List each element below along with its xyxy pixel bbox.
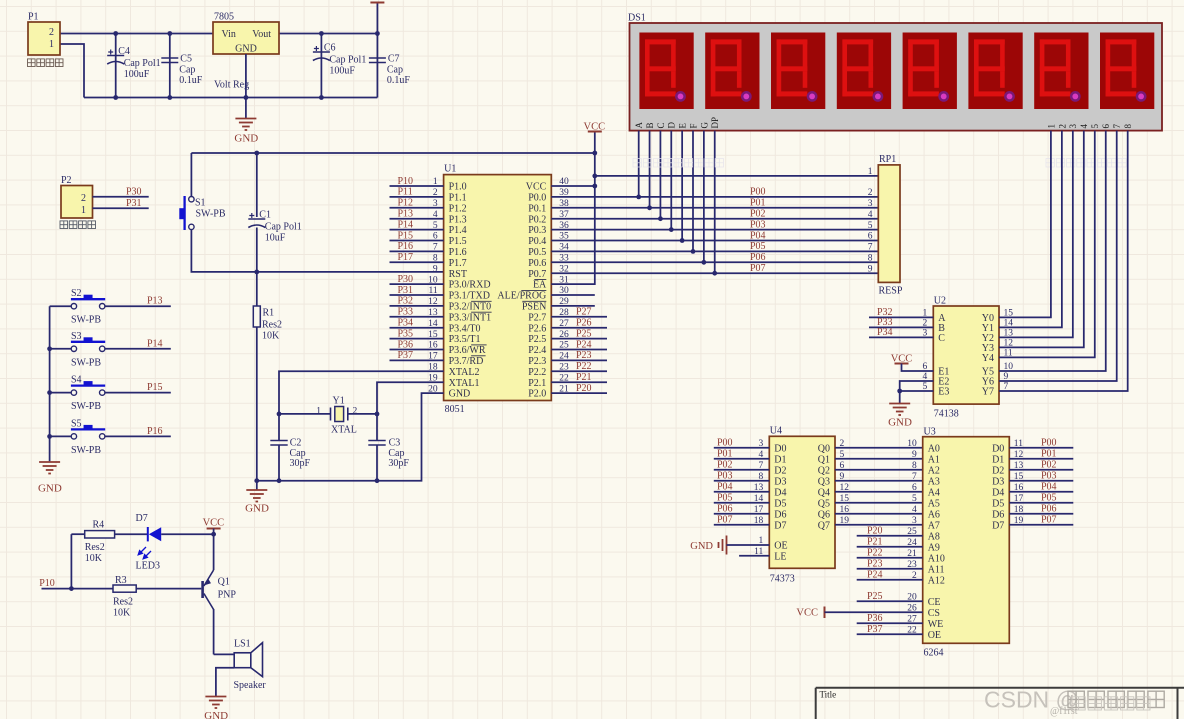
- svg-text:A1: A1: [928, 454, 940, 465]
- svg-text:D6: D6: [992, 509, 1004, 520]
- svg-text:6: 6: [840, 461, 845, 471]
- svg-text:P33: P33: [398, 307, 414, 318]
- svg-text:10uF: 10uF: [265, 233, 286, 244]
- wire key S2 output: [105, 305, 171, 307]
- svg-text:9: 9: [1004, 372, 1009, 382]
- wire key common column: [49, 306, 51, 461]
- svg-text:7: 7: [868, 243, 873, 253]
- capacitor C3 Cap 30pF: [376, 414, 378, 440]
- svg-text:7805: 7805: [214, 12, 234, 23]
- svg-text:P1.5: P1.5: [449, 236, 467, 247]
- svg-text:C2: C2: [290, 437, 302, 448]
- svg-text:U1: U1: [444, 164, 456, 175]
- svg-text:C6: C6: [324, 43, 336, 54]
- decoder U2 74138 body: [933, 306, 999, 404]
- wire VCC top branch / C7 branch: [376, 3, 378, 98]
- svg-text:P0.6: P0.6: [528, 258, 546, 269]
- svg-text:GND: GND: [888, 417, 912, 429]
- svg-text:12: 12: [840, 483, 850, 493]
- junction dots RST node: [254, 151, 259, 156]
- svg-text:P04: P04: [717, 482, 733, 493]
- junction dot E2/E3 gnd: [897, 389, 902, 394]
- diode D7 LED3: [147, 527, 149, 541]
- svg-text:1: 1: [81, 205, 86, 216]
- svg-text:RP1: RP1: [879, 154, 896, 165]
- wire U4 LE: [739, 555, 769, 557]
- wire U3 CS to VCC: [825, 611, 923, 613]
- svg-text:P0.7: P0.7: [528, 269, 546, 280]
- svg-text:P2.5: P2.5: [528, 334, 546, 345]
- crystal Y1 XTAL: [279, 413, 331, 415]
- svg-text:P25: P25: [867, 591, 883, 602]
- svg-text:20: 20: [907, 593, 917, 603]
- svg-text:P14: P14: [398, 219, 414, 230]
- svg-text:P3.1/TXD: P3.1/TXD: [449, 291, 490, 302]
- svg-text:P22: P22: [867, 548, 883, 559]
- svg-text:P12: P12: [398, 198, 414, 209]
- svg-text:10K: 10K: [113, 607, 131, 618]
- svg-text:7: 7: [759, 461, 764, 471]
- svg-text:1: 1: [316, 406, 321, 416]
- memory U3 6264 body: [923, 437, 1010, 644]
- svg-text:21: 21: [907, 549, 917, 559]
- svg-text:E3: E3: [938, 387, 949, 398]
- svg-text:ALE/PROG: ALE/PROG: [497, 291, 546, 302]
- svg-text:U4: U4: [770, 426, 782, 437]
- svg-text:P01: P01: [1041, 449, 1057, 460]
- wire P2 pin1: [93, 207, 149, 209]
- svg-text:P22: P22: [576, 361, 592, 372]
- wire 7805 Vout to VCC node: [279, 33, 377, 35]
- svg-text:C: C: [938, 333, 945, 344]
- svg-text:C5: C5: [180, 54, 192, 65]
- svg-text:Q5: Q5: [818, 498, 830, 509]
- svg-text:12: 12: [1004, 339, 1014, 349]
- svg-text:8051: 8051: [445, 404, 465, 415]
- latch U4 74373 body: [769, 436, 835, 568]
- svg-text:P23: P23: [576, 350, 592, 361]
- svg-text:A7: A7: [928, 520, 940, 531]
- wire E1 enable: [902, 364, 934, 372]
- svg-text:P02: P02: [717, 460, 733, 471]
- svg-text:2: 2: [1057, 124, 1067, 129]
- U2 input wires A B C: [869, 316, 933, 318]
- svg-text:12: 12: [1014, 450, 1024, 460]
- display DS1 8-digit 7-segment: [630, 23, 1163, 131]
- svg-text:P36: P36: [398, 339, 414, 350]
- svg-text:Y7: Y7: [982, 387, 994, 398]
- svg-text:P32: P32: [398, 296, 414, 307]
- DS1 segment pins down: [638, 131, 640, 197]
- wire XTAL1 pin19: [377, 382, 444, 414]
- svg-text:1: 1: [923, 309, 928, 319]
- svg-text:P01: P01: [717, 449, 733, 460]
- wire GND pin20: [257, 393, 444, 481]
- svg-text:P00: P00: [1041, 438, 1057, 449]
- wire VCC pin40: [551, 185, 595, 187]
- svg-text:Y4: Y4: [982, 353, 994, 364]
- svg-text:P06: P06: [750, 252, 766, 263]
- svg-text:1: 1: [868, 167, 873, 177]
- svg-text:DS1: DS1: [628, 13, 646, 24]
- svg-text:P2.4: P2.4: [528, 345, 546, 356]
- svg-text:P0.3: P0.3: [528, 225, 546, 236]
- svg-text:P27: P27: [576, 307, 592, 318]
- svg-text:P13: P13: [398, 209, 414, 220]
- resistor R1 Res2 10K: [256, 272, 258, 306]
- wire C6 branch: [320, 34, 322, 98]
- switch S2 SW-PB: [50, 305, 72, 307]
- svg-text:P1.0: P1.0: [449, 182, 467, 193]
- wire S1 top: [190, 153, 192, 197]
- switch S4 SW-PB: [50, 392, 72, 394]
- svg-text:23: 23: [907, 560, 917, 570]
- svg-text:XTAL2: XTAL2: [449, 367, 480, 378]
- transistor Q1 PNP: [201, 581, 204, 598]
- svg-text:P26: P26: [576, 318, 592, 329]
- junction dot P10 node: [69, 586, 74, 591]
- svg-text:6: 6: [1101, 124, 1111, 129]
- junction dots power rails: [113, 31, 118, 36]
- svg-text:Cap Pol1: Cap Pol1: [265, 222, 302, 233]
- svg-text:P0.2: P0.2: [528, 214, 546, 225]
- svg-text:9: 9: [433, 264, 438, 274]
- svg-text:A6: A6: [928, 509, 940, 520]
- svg-text:11: 11: [754, 547, 763, 557]
- svg-text:XTAL1: XTAL1: [449, 378, 480, 389]
- svg-text:10K: 10K: [262, 331, 280, 342]
- svg-text:P20: P20: [576, 383, 592, 394]
- switch S1 SW-PB vertical: [183, 196, 185, 230]
- wire P1 pin1 down to ground rail: [60, 44, 84, 98]
- svg-text:P00: P00: [717, 438, 733, 449]
- wire E2 enable: [900, 381, 934, 403]
- svg-text:A2: A2: [928, 465, 940, 476]
- U3 control wires CE CS WE OE: [857, 600, 923, 602]
- svg-text:SW-PB: SW-PB: [71, 401, 101, 412]
- wire VCC row to S1/C1: [191, 152, 594, 154]
- ground symbol below U2: [889, 404, 910, 416]
- svg-text:A0: A0: [928, 443, 940, 454]
- svg-text:P2.1: P2.1: [528, 378, 546, 389]
- svg-text:13: 13: [1004, 329, 1014, 339]
- svg-text:LS1: LS1: [234, 639, 251, 650]
- capacitor C2 Cap 30pF: [278, 414, 280, 440]
- svg-text:P13: P13: [147, 296, 163, 307]
- svg-text:D: D: [667, 122, 677, 129]
- svg-text:D3: D3: [774, 476, 786, 487]
- svg-text:D7: D7: [774, 520, 786, 531]
- svg-text:15: 15: [840, 494, 850, 504]
- faint watermark under DS1 left pins: [633, 159, 724, 167]
- svg-text:P15: P15: [147, 382, 163, 393]
- svg-text:P1.2: P1.2: [449, 203, 467, 214]
- svg-text:100uF: 100uF: [124, 69, 150, 80]
- svg-text:S1: S1: [195, 198, 206, 209]
- wire C5 branch: [169, 34, 171, 98]
- resistor R4 Res2 10K: [71, 533, 84, 535]
- svg-text:PSEN: PSEN: [522, 302, 546, 313]
- svg-text:Vout: Vout: [252, 29, 271, 40]
- svg-text:5: 5: [868, 221, 873, 231]
- svg-text:Q1: Q1: [218, 576, 230, 587]
- svg-text:P14: P14: [147, 338, 163, 349]
- svg-text:Q6: Q6: [818, 509, 830, 520]
- svg-text:4: 4: [912, 505, 917, 515]
- svg-text:Res2: Res2: [113, 596, 133, 607]
- svg-text:Cap: Cap: [179, 65, 195, 76]
- svg-text:P3.3/INT1: P3.3/INT1: [449, 312, 492, 323]
- svg-text:SW-PB: SW-PB: [71, 357, 101, 368]
- svg-text:EA: EA: [533, 280, 547, 291]
- svg-text:30pF: 30pF: [388, 458, 409, 469]
- switch S3 SW-PB: [50, 348, 72, 350]
- svg-text:GND: GND: [690, 541, 713, 552]
- svg-text:P37: P37: [398, 350, 414, 361]
- svg-text:Q0: Q0: [818, 443, 830, 454]
- svg-text:OE: OE: [928, 630, 941, 641]
- svg-text:9: 9: [868, 264, 873, 274]
- svg-text:U2: U2: [934, 296, 946, 307]
- svg-text:Q2: Q2: [818, 465, 830, 476]
- svg-text:2: 2: [353, 406, 358, 416]
- svg-text:7: 7: [1004, 382, 1009, 392]
- svg-text:P24: P24: [867, 570, 883, 581]
- svg-text:Res2: Res2: [85, 542, 105, 553]
- svg-text:9: 9: [840, 472, 845, 482]
- svg-text:VCC: VCC: [203, 517, 225, 528]
- svg-text:P21: P21: [867, 537, 883, 548]
- svg-text:C4: C4: [118, 46, 130, 57]
- svg-text:P35: P35: [398, 328, 414, 339]
- wire P2 pin2: [93, 196, 149, 198]
- wire VCC to LED/collector node: [213, 529, 215, 571]
- svg-text:GND: GND: [449, 389, 471, 400]
- svg-text:P11: P11: [398, 187, 413, 198]
- svg-text:10: 10: [907, 439, 917, 449]
- svg-text:P34: P34: [398, 318, 414, 329]
- svg-text:Q7: Q7: [818, 520, 830, 531]
- svg-text:P16: P16: [398, 241, 414, 252]
- svg-text:P10: P10: [39, 578, 55, 589]
- resistor R3 Res2 10K: [113, 585, 136, 592]
- svg-text:GND: GND: [234, 133, 258, 145]
- svg-text:RESP: RESP: [879, 286, 903, 297]
- svg-text:DP: DP: [710, 117, 720, 129]
- svg-text:16: 16: [840, 505, 850, 515]
- svg-text:P0.4: P0.4: [528, 236, 546, 247]
- wire XTAL2 pin18: [279, 371, 444, 414]
- svg-text:11: 11: [1004, 349, 1013, 359]
- svg-text:P07: P07: [717, 515, 733, 526]
- svg-text:XTAL: XTAL: [331, 424, 357, 435]
- svg-text:P21: P21: [576, 372, 592, 383]
- svg-text:S4: S4: [71, 375, 82, 386]
- svg-text:A12: A12: [928, 575, 945, 586]
- svg-text:Volt Reg: Volt Reg: [214, 80, 249, 91]
- svg-text:GND: GND: [38, 483, 62, 495]
- svg-text:P06: P06: [1041, 504, 1057, 515]
- svg-text:D7: D7: [136, 513, 148, 524]
- wire C4 branch: [115, 34, 117, 98]
- svg-text:S5: S5: [71, 418, 82, 429]
- svg-text:VCC: VCC: [526, 182, 547, 193]
- svg-text:13: 13: [754, 483, 764, 493]
- svg-text:P16: P16: [147, 426, 163, 437]
- svg-text:P2.0: P2.0: [528, 389, 546, 400]
- svg-text:S2: S2: [71, 288, 82, 299]
- svg-text:P36: P36: [867, 613, 883, 624]
- svg-text:15: 15: [1014, 472, 1024, 482]
- svg-text:8: 8: [912, 461, 917, 471]
- svg-text:P03: P03: [1041, 471, 1057, 482]
- svg-text:A8: A8: [928, 531, 940, 542]
- svg-text:P05: P05: [1041, 493, 1057, 504]
- svg-text:8: 8: [868, 254, 873, 264]
- junction dots key column: [47, 346, 52, 351]
- svg-text:4: 4: [923, 372, 928, 382]
- capacitor C7 Cap 0.1uF: [369, 58, 386, 63]
- svg-text:18: 18: [1014, 505, 1024, 515]
- svg-text:3: 3: [912, 516, 917, 526]
- svg-text:10K: 10K: [85, 553, 103, 564]
- svg-text:GND: GND: [245, 503, 269, 515]
- svg-text:2: 2: [840, 439, 845, 449]
- svg-text:D0: D0: [992, 443, 1004, 454]
- svg-text:4: 4: [759, 450, 764, 460]
- svg-text:Y1: Y1: [333, 396, 345, 407]
- svg-text:2: 2: [868, 188, 873, 198]
- op U1 8051 body: [444, 175, 552, 401]
- title block border: [816, 688, 1184, 719]
- svg-text:GND: GND: [235, 44, 257, 55]
- wire S1 bottom to RST: [191, 230, 443, 272]
- svg-text:U3: U3: [924, 427, 936, 438]
- svg-text:A3: A3: [928, 476, 940, 487]
- wire R4 branch down: [70, 534, 72, 588]
- svg-text:6: 6: [912, 483, 917, 493]
- svg-text:5: 5: [1090, 124, 1100, 129]
- svg-text:PNP: PNP: [218, 590, 237, 601]
- svg-text:P05: P05: [717, 493, 733, 504]
- wire ground rail bottom: [84, 97, 377, 99]
- svg-text:D0: D0: [774, 443, 786, 454]
- svg-text:C7: C7: [388, 54, 400, 65]
- svg-text:P0.1: P0.1: [528, 203, 546, 214]
- resistor pack RP1 RESP: [878, 165, 900, 283]
- svg-text:Cap Pol1: Cap Pol1: [124, 58, 161, 69]
- svg-text:11: 11: [1014, 439, 1023, 449]
- U1 left stub wires P10-P17: [390, 185, 444, 187]
- svg-text:P3.5/T1: P3.5/T1: [449, 334, 481, 345]
- svg-text:22: 22: [907, 626, 917, 636]
- svg-text:D7: D7: [992, 520, 1004, 531]
- U3 data wires D0-D7: [1009, 447, 1073, 449]
- svg-text:17: 17: [1014, 494, 1024, 504]
- svg-text:D2: D2: [774, 465, 786, 476]
- DS1 digit segments: [645, 39, 1136, 96]
- svg-text:D4: D4: [992, 487, 1004, 498]
- U1 pin name overlines left: [471, 300, 492, 302]
- svg-text:@f1rst: @f1rst: [1050, 706, 1078, 717]
- svg-text:D5: D5: [992, 498, 1004, 509]
- svg-text:100uF: 100uF: [329, 66, 355, 77]
- svg-text:P07: P07: [750, 263, 766, 274]
- svg-text:P15: P15: [398, 230, 414, 241]
- wire RP1 pin1 feed: [595, 175, 879, 177]
- svg-text:P3.4/T0: P3.4/T0: [449, 323, 481, 334]
- svg-text:Res2: Res2: [262, 320, 282, 331]
- U4 output wires Q0-Q7 to U3: [835, 447, 923, 449]
- svg-text:R4: R4: [93, 519, 105, 530]
- svg-text:C1: C1: [259, 210, 271, 221]
- svg-text:P25: P25: [576, 328, 592, 339]
- svg-text:8: 8: [1123, 124, 1133, 129]
- svg-text:7: 7: [912, 472, 917, 482]
- switch S5 SW-PB: [50, 435, 72, 437]
- svg-text:P0.5: P0.5: [528, 247, 546, 258]
- svg-text:P00: P00: [750, 187, 766, 198]
- DS1 decimal points: [675, 91, 686, 102]
- svg-text:6: 6: [923, 362, 928, 372]
- svg-text:3: 3: [1068, 124, 1078, 129]
- svg-text:P2.2: P2.2: [528, 367, 546, 378]
- svg-text:13: 13: [1014, 461, 1024, 471]
- svg-text:C3: C3: [389, 437, 401, 448]
- svg-text:P3.6/WR: P3.6/WR: [449, 345, 486, 356]
- svg-text:P01: P01: [750, 198, 766, 209]
- svg-text:9: 9: [912, 450, 917, 460]
- wire Q1 emitter down: [213, 609, 215, 654]
- svg-text:F: F: [688, 123, 698, 128]
- svg-text:D5: D5: [774, 498, 786, 509]
- speaker LS1: [214, 653, 235, 655]
- svg-text:0.1uF: 0.1uF: [387, 75, 411, 86]
- svg-text:P2.3: P2.3: [528, 356, 546, 367]
- ground symbol below 7805: [235, 119, 256, 131]
- svg-text:R3: R3: [115, 575, 127, 586]
- svg-text:P1.1: P1.1: [449, 193, 467, 204]
- svg-text:Title: Title: [820, 690, 837, 700]
- svg-text:19: 19: [840, 516, 850, 526]
- svg-text:LE: LE: [774, 551, 786, 562]
- wire key S5 output: [105, 435, 171, 437]
- wire P1 pin2 to 7805 Vin: [60, 33, 213, 35]
- svg-text:P1.7: P1.7: [449, 258, 467, 269]
- svg-text:P1.3: P1.3: [449, 214, 467, 225]
- wire LED to VCC node: [161, 533, 213, 535]
- svg-text:A11: A11: [928, 564, 945, 575]
- junction dots VCC column: [592, 151, 597, 156]
- svg-text:D3: D3: [992, 476, 1004, 487]
- svg-text:P04: P04: [750, 230, 766, 241]
- ground symbol oscillator rail: [256, 481, 258, 490]
- svg-text:Cap Pol1: Cap Pol1: [329, 55, 366, 66]
- svg-text:P34: P34: [877, 327, 893, 338]
- svg-text:1: 1: [1046, 124, 1056, 129]
- svg-text:A5: A5: [928, 498, 940, 509]
- wire R1 to ground rail: [256, 327, 258, 481]
- ground symbol below speaker: [205, 697, 226, 709]
- junction dot LED node: [211, 532, 216, 537]
- capacitor C4 Cap Pol1 100uF: [107, 56, 124, 65]
- svg-text:3: 3: [868, 199, 873, 209]
- svg-text:8: 8: [759, 472, 764, 482]
- svg-text:P02: P02: [750, 209, 766, 220]
- svg-text:Cap: Cap: [387, 65, 403, 76]
- svg-text:6264: 6264: [924, 648, 944, 659]
- svg-text:D2: D2: [992, 465, 1004, 476]
